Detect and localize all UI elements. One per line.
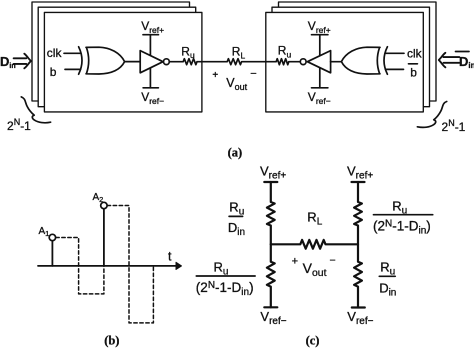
svg-text:clk: clk bbox=[47, 46, 63, 60]
svg-text:t: t bbox=[168, 250, 172, 264]
svg-text:b: b bbox=[410, 66, 417, 80]
svg-text:clk: clk bbox=[407, 46, 423, 60]
svg-text:b: b bbox=[50, 65, 57, 79]
svg-text:+: + bbox=[212, 70, 218, 81]
svg-text:+: + bbox=[292, 256, 298, 268]
svg-text:(b): (b) bbox=[104, 334, 119, 348]
svg-text:−: − bbox=[330, 254, 336, 266]
svg-text:−: − bbox=[250, 68, 256, 80]
svg-text:(a): (a) bbox=[228, 145, 243, 159]
svg-text:(c): (c) bbox=[306, 334, 320, 348]
